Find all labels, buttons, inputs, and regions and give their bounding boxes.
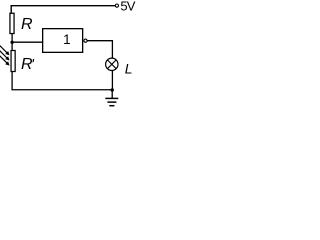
svg-text:5V: 5V [120,0,135,14]
svg-text:1: 1 [63,32,71,47]
svg-text:L: L [125,61,133,77]
svg-text:R': R' [21,56,35,73]
svg-text:R: R [21,16,33,33]
